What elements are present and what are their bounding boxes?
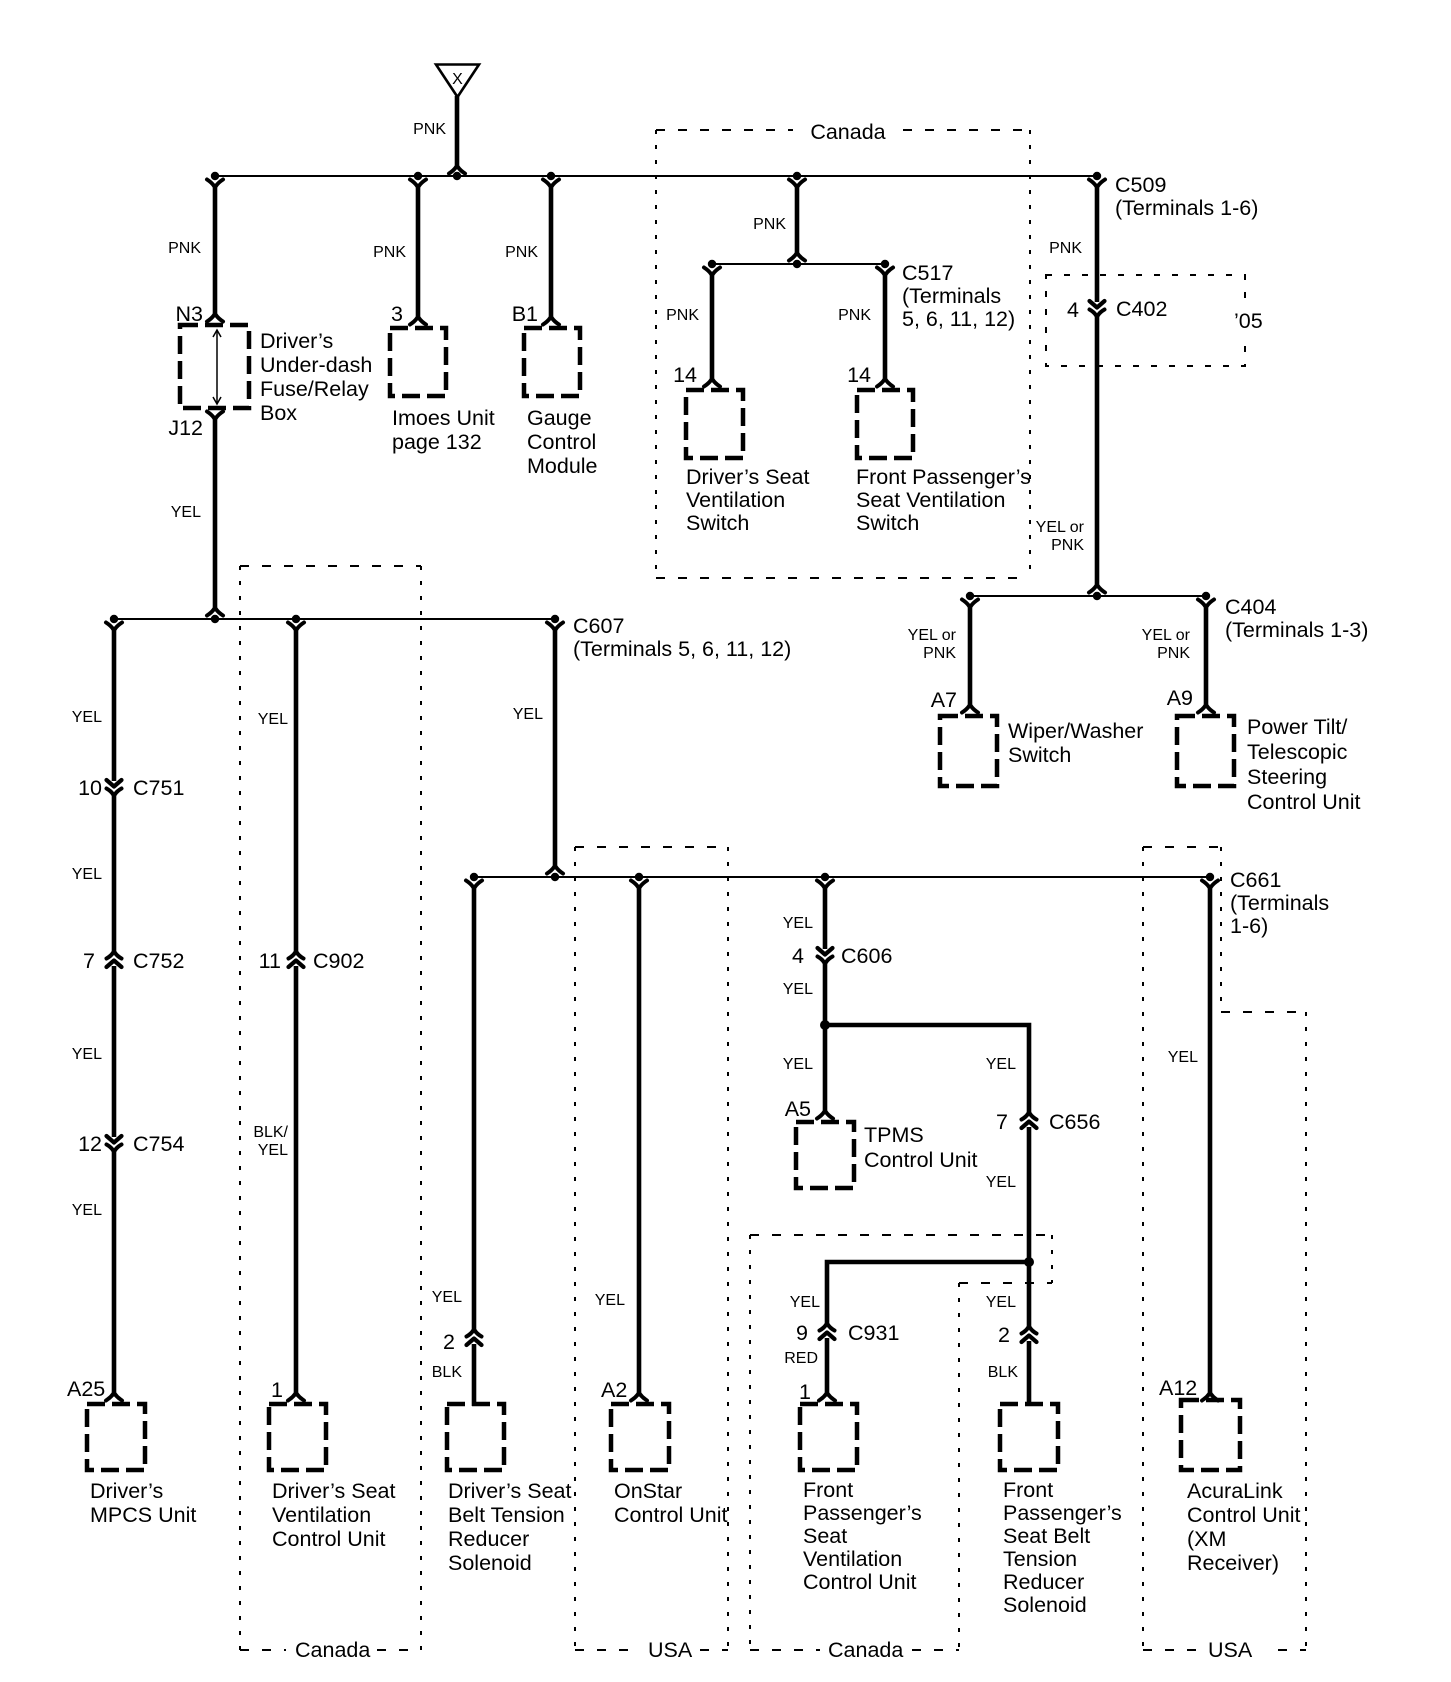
svg-text:Gauge: Gauge — [527, 406, 592, 430]
svg-text:C751: C751 — [133, 776, 184, 800]
component box Front Passenger's Seat Belt Tension Reducer Solenoid — [1000, 1404, 1058, 1470]
svg-text:B1: B1 — [512, 302, 538, 326]
wire PNK from X down to bus 1 — [449, 96, 465, 174]
connector pin 2 inline (front belt) — [1022, 1327, 1037, 1342]
wire PNK C509 down — [1089, 180, 1105, 303]
wire BLK into driver's belt tension solenoid — [472, 1344, 477, 1406]
label N3 — [176, 302, 204, 326]
label YEL (above C606) — [783, 915, 813, 932]
label pin 9 (C931) — [796, 1321, 808, 1345]
junction dot bus1 at Imoes branch — [414, 172, 422, 180]
svg-text:(Terminals: (Terminals — [1230, 891, 1329, 915]
label AcuraLink Control Unit — [1187, 1479, 1301, 1575]
svg-text:Driver’s Seat: Driver’s Seat — [272, 1479, 395, 1503]
junction dot bus2 left end — [110, 615, 118, 623]
label connector C754 — [133, 1132, 184, 1156]
label YEL (below C656) — [986, 1174, 1016, 1191]
svg-text:1: 1 — [799, 1380, 811, 1404]
svg-text:YEL: YEL — [72, 1202, 102, 1219]
label YEL (below C606) — [783, 981, 813, 998]
svg-text:PNK: PNK — [168, 240, 201, 257]
svg-text:Belt Tension: Belt Tension — [448, 1503, 565, 1527]
svg-text:PNK: PNK — [1157, 645, 1190, 662]
svg-text:YEL: YEL — [783, 915, 813, 932]
junction dot bus3 right (C404) — [1202, 592, 1210, 600]
label Canada (bottom region) — [828, 1638, 903, 1662]
label YEL (above C902) — [258, 711, 288, 728]
svg-text:YEL: YEL — [1168, 1049, 1198, 1066]
svg-text:YEL: YEL — [595, 1292, 625, 1309]
svg-text:Control Unit: Control Unit — [803, 1570, 917, 1594]
svg-text:Reducer: Reducer — [448, 1527, 529, 1551]
junction dot front passenger split — [1024, 1257, 1034, 1267]
svg-text:Passenger’s: Passenger’s — [803, 1501, 922, 1525]
label pin 2 (driver belt) — [443, 1330, 455, 1354]
svg-text:YEL: YEL — [72, 866, 102, 883]
junction dot bus3 centre — [1093, 592, 1101, 600]
svg-text:11: 11 — [259, 949, 281, 973]
bus 3 horizontal (C404) — [970, 595, 1206, 597]
svg-text:N3: N3 — [176, 302, 204, 326]
svg-text:5, 6, 11, 12): 5, 6, 11, 12) — [902, 307, 1015, 331]
label pin B1 (gauge) — [512, 302, 538, 326]
label PNK (driver vent switch wire) — [666, 307, 699, 324]
label pin 14 (driver vent switch) — [673, 363, 697, 387]
junction dot canada sub-bus right — [881, 260, 889, 268]
svg-text:4: 4 — [792, 944, 804, 968]
component box Imoes Unit — [390, 328, 446, 396]
label TPMS Control Unit — [864, 1123, 978, 1172]
junction dot bus2 at J12 — [211, 615, 219, 623]
junction dot bus3 left (A7 branch) — [966, 592, 974, 600]
svg-text:(Terminals 5, 6, 11, 12): (Terminals 5, 6, 11, 12) — [573, 637, 791, 661]
label Driver's MPCS Unit — [90, 1479, 196, 1527]
svg-text:USA: USA — [648, 1638, 693, 1662]
connector C751 pin 10 inline — [107, 780, 122, 795]
label YEL (above C752) — [72, 866, 102, 883]
svg-text:MPCS Unit: MPCS Unit — [90, 1503, 196, 1527]
label connector C931 — [848, 1321, 899, 1345]
label connector C606 — [841, 944, 892, 968]
svg-text:C606: C606 — [841, 944, 892, 968]
svg-text:Telescopic: Telescopic — [1247, 740, 1348, 764]
wire PNK bus1 to Gauge Control Module — [543, 180, 559, 325]
svg-text:C402: C402 — [1116, 297, 1167, 321]
junction dot bus4 at C607 — [551, 873, 559, 881]
label BLK/YEL — [253, 1124, 288, 1159]
wire YEL branch to C656 (elbow) — [825, 1025, 1029, 1115]
svg-text:Receiver): Receiver) — [1187, 1551, 1279, 1575]
svg-text:PNK: PNK — [666, 307, 699, 324]
svg-text:PNK: PNK — [923, 645, 956, 662]
connector C931 pin 9 inline — [820, 1324, 835, 1339]
label connector C751 — [133, 776, 184, 800]
label OnStar Control Unit — [614, 1479, 728, 1527]
svg-text:C752: C752 — [133, 949, 184, 973]
svg-text:Switch: Switch — [1008, 743, 1071, 767]
region box '05 (around C402) — [1046, 275, 1245, 366]
svg-text:YEL or: YEL or — [1142, 627, 1191, 644]
label PNK (C509 wire) — [1049, 240, 1082, 257]
svg-text:Ventilation: Ventilation — [272, 1503, 371, 1527]
wire YEL bus4 to belt tension connector — [466, 881, 482, 1333]
label pin 11 (C902) — [259, 949, 281, 973]
wire PNK bus1 to Imoes unit — [410, 180, 426, 325]
label YEL (above C754) — [72, 1046, 102, 1063]
label connector C607 — [573, 614, 791, 661]
svg-text:Driver’s: Driver’s — [90, 1479, 163, 1503]
label connector C902 — [313, 949, 364, 973]
label YEL or PNK (A9 wire) — [1142, 627, 1191, 662]
label Imoes Unit page 132 — [392, 406, 495, 454]
label BLK (front belt) — [988, 1364, 1019, 1381]
wire YEL C607 down to bus 4 — [547, 623, 563, 874]
wire YEL C754 to MPCS unit — [106, 1149, 122, 1401]
wire YEL bus4 to AcuraLink — [1202, 881, 1218, 1401]
component box Power Tilt/Telescopic Steering Control Unit — [1177, 716, 1234, 786]
label YEL (AcuraLink wire) — [1168, 1049, 1198, 1066]
label YEL (OnStar wire) — [595, 1292, 625, 1309]
junction dot bus4 left end — [470, 873, 478, 881]
svg-text:RED: RED — [784, 1350, 818, 1367]
label PNK (N3 wire) — [168, 240, 201, 257]
svg-text:1-6): 1-6) — [1230, 914, 1268, 938]
connector C606 pin 4 inline — [818, 948, 833, 963]
junction dot canada sub-bus centre — [793, 260, 801, 268]
region box USA (OnStar) — [575, 847, 728, 1650]
label pin 2 (front belt) — [998, 1323, 1010, 1347]
svg-text:4: 4 — [1067, 298, 1079, 322]
label PNK (gauge wire) — [505, 244, 538, 261]
svg-text:14: 14 — [673, 363, 697, 387]
svg-text:7: 7 — [996, 1110, 1008, 1134]
wire YEL bus2 to C751 — [106, 623, 122, 782]
svg-text:Switch: Switch — [856, 511, 919, 535]
junction dot bus4 at OnStar branch — [635, 873, 643, 881]
svg-text:PNK: PNK — [1049, 240, 1082, 257]
label pin 1 (front pass vent control unit) — [799, 1380, 811, 1404]
svg-text:Solenoid: Solenoid — [1003, 1593, 1087, 1617]
svg-text:PNK: PNK — [753, 216, 786, 233]
svg-text:Seat: Seat — [803, 1524, 847, 1548]
svg-text:Solenoid: Solenoid — [448, 1551, 532, 1575]
svg-text:C754: C754 — [133, 1132, 184, 1156]
wire YEL or PNK C402 down to C404 bus — [1089, 314, 1105, 593]
svg-text:YEL: YEL — [432, 1289, 462, 1306]
fuse box internal through-arrow — [213, 330, 221, 404]
svg-text:YEL or: YEL or — [908, 627, 957, 644]
svg-text:A2: A2 — [601, 1378, 627, 1402]
junction dot TPMS branch split — [820, 1020, 830, 1030]
label YEL (C607 wire) — [513, 706, 543, 723]
svg-text:YEL or: YEL or — [1036, 519, 1085, 536]
svg-text:YEL: YEL — [783, 981, 813, 998]
svg-text:C656: C656 — [1049, 1110, 1100, 1134]
component box Driver's Seat Ventilation Switch — [686, 390, 743, 458]
label connector C509 — [1115, 173, 1258, 220]
svg-text:PNK: PNK — [505, 244, 538, 261]
svg-text:YEL: YEL — [258, 1142, 288, 1159]
svg-text:Control Unit: Control Unit — [614, 1503, 728, 1527]
label YEL (driver belt wire) — [432, 1289, 462, 1306]
region box Canada (top, seat ventilation switches) — [656, 130, 1030, 578]
junction dot bus2 at C902 branch — [292, 615, 300, 623]
junction dot bus4 at TPMS branch — [821, 873, 829, 881]
svg-text:YEL: YEL — [986, 1174, 1016, 1191]
svg-text:USA: USA — [1208, 1638, 1253, 1662]
svg-text:C607: C607 — [573, 614, 624, 638]
junction dot bus2 right end (C607) — [551, 615, 559, 623]
wire YEL or PNK to power tilt unit — [1198, 600, 1214, 713]
label Driver's Under-dash Fuse/Relay Box — [260, 329, 372, 425]
svg-text:(XM: (XM — [1187, 1527, 1226, 1551]
junction dot bus1 at Canada branch — [793, 172, 801, 180]
label connector C404 — [1225, 595, 1368, 642]
svg-text:1: 1 — [271, 1378, 283, 1402]
svg-text:Ventilation: Ventilation — [686, 488, 785, 512]
svg-text:Wiper/Washer: Wiper/Washer — [1008, 719, 1143, 743]
label Driver's Seat Ventilation Control Unit — [272, 1479, 395, 1551]
wire YEL bus2 to C902 — [288, 623, 304, 955]
svg-text:A5: A5 — [785, 1097, 811, 1121]
wire BLK into front passenger belt solenoid — [1027, 1341, 1032, 1406]
label connector C661 — [1230, 868, 1329, 938]
wire PNK to front passenger's seat ventilation switch — [877, 268, 893, 387]
label YEL (above C751) — [72, 709, 102, 726]
wire YEL C751 to C752 — [112, 793, 117, 954]
svg-text:C509: C509 — [1115, 173, 1166, 197]
svg-text:(Terminals: (Terminals — [902, 284, 1001, 308]
component box TPMS Control Unit — [796, 1122, 854, 1188]
label connector C656 — [1049, 1110, 1100, 1134]
svg-text:J12: J12 — [168, 416, 203, 440]
svg-text:OnStar: OnStar — [614, 1479, 682, 1503]
svg-text:’05: ’05 — [1234, 309, 1263, 333]
label YEL or PNK (A7 wire) — [908, 627, 957, 662]
svg-text:Imoes Unit: Imoes Unit — [392, 406, 495, 430]
label BLK (driver belt) — [432, 1364, 463, 1381]
svg-text:9: 9 — [796, 1321, 808, 1345]
label PNK (feed wire) — [413, 121, 446, 138]
svg-text:Control Unit: Control Unit — [864, 1148, 978, 1172]
junction dot bus4 right end (C661) — [1206, 873, 1214, 881]
svg-text:Control: Control — [527, 430, 596, 454]
connector C402 pin 4 inline — [1090, 301, 1105, 316]
label Driver's Seat Belt Tension Reducer Solenoid — [448, 1479, 571, 1575]
wire YEL junction down to TPMS unit — [817, 1025, 833, 1119]
label J12 — [168, 416, 203, 440]
wire YEL C752 to C754 — [112, 966, 117, 1137]
svg-text:AcuraLink: AcuraLink — [1187, 1479, 1283, 1503]
region box USA (AcuraLink) — [1143, 847, 1306, 1650]
svg-text:PNK: PNK — [1051, 537, 1084, 554]
wire PNK to driver's seat ventilation switch — [704, 268, 720, 387]
junction dot bus1 at feed — [453, 172, 461, 180]
svg-text:Front Passenger’s: Front Passenger’s — [856, 465, 1031, 489]
svg-text:Box: Box — [260, 401, 297, 425]
svg-text:C404: C404 — [1225, 595, 1276, 619]
svg-text:A25: A25 — [67, 1377, 105, 1401]
label '05 — [1226, 306, 1270, 336]
label Wiper/Washer Switch — [1008, 719, 1143, 767]
svg-text:C661: C661 — [1230, 868, 1281, 892]
label YEL (J12 wire) — [171, 504, 201, 521]
svg-text:Passenger’s: Passenger’s — [1003, 1501, 1122, 1525]
label Front Passenger's Seat Ventilation Switch — [856, 465, 1031, 535]
label pin 7 (C752) — [83, 949, 95, 973]
connector C656 pin 7 inline — [1022, 1113, 1037, 1128]
label PNK (front pass vent switch wire) — [838, 307, 871, 324]
svg-text:Switch: Switch — [686, 511, 749, 535]
svg-text:YEL: YEL — [986, 1056, 1016, 1073]
junction dot bus1 left end — [211, 172, 219, 180]
svg-text:C931: C931 — [848, 1321, 899, 1345]
label connector C517 — [902, 261, 1015, 331]
svg-text:Canada: Canada — [828, 1638, 903, 1662]
svg-text:A12: A12 — [1159, 1376, 1197, 1400]
label pin A9 — [1167, 686, 1193, 710]
label pin 1 (driver vent control unit) — [271, 1378, 283, 1402]
svg-text:12: 12 — [78, 1132, 102, 1156]
region box Canada (left, driver's seat ventilation control unit) — [240, 566, 421, 1650]
connector C754 pin 12 inline — [107, 1136, 122, 1151]
svg-text:7: 7 — [83, 949, 95, 973]
svg-text:Power Tilt/: Power Tilt/ — [1247, 715, 1347, 739]
region box Canada (bottom, front passenger's seat ventilation control unit) — [750, 1235, 1052, 1650]
label pin 12 (C754) — [78, 1132, 102, 1156]
label pin 3 (Imoes) — [391, 302, 403, 326]
svg-text:Driver’s: Driver’s — [260, 329, 333, 353]
label pin 4 (C402) — [1067, 298, 1079, 322]
label USA (AcuraLink region) — [1208, 1638, 1253, 1662]
label pin 10 (C751) — [78, 776, 102, 800]
svg-text:Driver’s Seat: Driver’s Seat — [448, 1479, 571, 1503]
label pin A5 — [785, 1097, 811, 1121]
svg-text:Canada: Canada — [295, 1638, 370, 1662]
label pin 7 (C656) — [996, 1110, 1008, 1134]
wire YEL junction down to pin2 connector — [1027, 1262, 1032, 1329]
wire PNK bus1 to N3 — [207, 180, 223, 322]
label YEL (C656 upper) — [986, 1056, 1016, 1073]
svg-text:YEL: YEL — [72, 709, 102, 726]
label connector C402 — [1116, 297, 1167, 321]
svg-text:A9: A9 — [1167, 686, 1193, 710]
label Gauge Control Module — [527, 406, 598, 478]
junction dot bus1 at gauge branch — [547, 172, 555, 180]
svg-text:PNK: PNK — [373, 244, 406, 261]
label Driver's Seat Ventilation Switch — [686, 465, 809, 535]
svg-text:BLK: BLK — [432, 1364, 463, 1381]
svg-text:Control Unit: Control Unit — [272, 1527, 386, 1551]
connector C902 pin 11 inline — [289, 952, 304, 967]
sub-bus horizontal in Canada box — [712, 263, 885, 265]
connector C752 pin 7 inline — [107, 952, 122, 967]
bus 1 horizontal (PNK distribution) — [215, 175, 1097, 177]
bus 2 horizontal (YEL distribution) — [114, 618, 555, 620]
label RED (C931 wire) — [784, 1350, 818, 1367]
junction dot bus1 right end (C509) — [1093, 172, 1101, 180]
label pin A7 — [931, 688, 957, 712]
svg-text:BLK: BLK — [988, 1364, 1019, 1381]
label pin A12 — [1159, 1376, 1197, 1400]
svg-text:TPMS: TPMS — [864, 1123, 924, 1147]
label connector C752 — [133, 949, 184, 973]
component box Driver's Seat Belt Tension Reducer Solenoid — [447, 1404, 504, 1470]
label Canada (top region) — [810, 120, 885, 144]
label YEL or PNK (C402 wire) — [1036, 519, 1085, 554]
label pin 4 (C606) — [792, 944, 804, 968]
svg-text:(Terminals 1-6): (Terminals 1-6) — [1115, 196, 1258, 220]
svg-text:YEL: YEL — [72, 1046, 102, 1063]
label Canada (left region) — [295, 1638, 370, 1662]
label YEL (front belt wire) — [986, 1294, 1016, 1311]
label pin A25 — [67, 1377, 105, 1401]
svg-text:3: 3 — [391, 302, 403, 326]
wire YEL or PNK to wiper/washer switch — [962, 600, 978, 713]
connector pin 2 inline (driver belt) — [467, 1330, 482, 1345]
wire YEL bus4 to C606 — [817, 881, 833, 950]
wire YEL bus4 to OnStar — [631, 881, 647, 1401]
label YEL (above MPCS) — [72, 1202, 102, 1219]
label PNK (Imoes wire) — [373, 244, 406, 261]
wire YEL branch to C931 (elbow) — [827, 1262, 1029, 1326]
label YEL (above TPMS) — [783, 1056, 813, 1073]
label PNK (Canada feed) — [753, 216, 786, 233]
component box Front Passenger's Seat Ventilation Control Unit — [800, 1404, 857, 1470]
component box Driver's Under-dash Fuse/Relay Box — [180, 325, 249, 408]
svg-text:10: 10 — [78, 776, 102, 800]
svg-text:Driver’s Seat: Driver’s Seat — [686, 465, 809, 489]
svg-text:C517: C517 — [902, 261, 953, 285]
label Front Passenger's Seat Ventilation Control Unit — [803, 1478, 922, 1594]
label USA (OnStar region) — [648, 1638, 693, 1662]
svg-text:BLK/: BLK/ — [253, 1124, 288, 1141]
component box Driver's Seat Ventilation Control Unit — [269, 1404, 326, 1470]
label pin 14 (front pass vent switch) — [847, 363, 871, 387]
wire BLK/YEL C902 to vent control unit — [288, 966, 304, 1401]
power source triangle X — [436, 65, 479, 98]
svg-text:Control Unit: Control Unit — [1187, 1503, 1301, 1527]
svg-text:Steering: Steering — [1247, 765, 1327, 789]
svg-text:2: 2 — [998, 1323, 1010, 1347]
wire RED C931 to front passenger vent control unit — [819, 1338, 835, 1401]
junction dot canada sub-bus left — [708, 260, 716, 268]
component box Wiper/Washer Switch — [940, 716, 997, 786]
svg-text:PNK: PNK — [838, 307, 871, 324]
svg-text:PNK: PNK — [413, 121, 446, 138]
svg-text:YEL: YEL — [258, 711, 288, 728]
svg-text:YEL: YEL — [171, 504, 201, 521]
svg-text:YEL: YEL — [986, 1294, 1016, 1311]
svg-text:Seat Belt: Seat Belt — [1003, 1524, 1090, 1548]
svg-text:C902: C902 — [313, 949, 364, 973]
wire YEL C656 down to junction — [1027, 1127, 1032, 1262]
svg-text:Tension: Tension — [1003, 1547, 1077, 1571]
component box Front Passenger's Seat Ventilation Switch — [857, 390, 913, 458]
svg-text:Seat Ventilation: Seat Ventilation — [856, 488, 1005, 512]
svg-text:2: 2 — [443, 1330, 455, 1354]
svg-text:Under-dash: Under-dash — [260, 353, 372, 377]
svg-text:Front: Front — [1003, 1478, 1053, 1502]
svg-text:(Terminals 1-3): (Terminals 1-3) — [1225, 618, 1368, 642]
label YEL (above C931) — [790, 1294, 820, 1311]
wire YEL C606 to junction — [823, 961, 828, 1025]
svg-text:page 132: page 132 — [392, 430, 482, 454]
svg-text:Canada: Canada — [810, 120, 885, 144]
svg-text:Reducer: Reducer — [1003, 1570, 1084, 1594]
wire PNK bus1 into Canada box — [789, 180, 805, 261]
svg-text:Ventilation: Ventilation — [803, 1547, 902, 1571]
